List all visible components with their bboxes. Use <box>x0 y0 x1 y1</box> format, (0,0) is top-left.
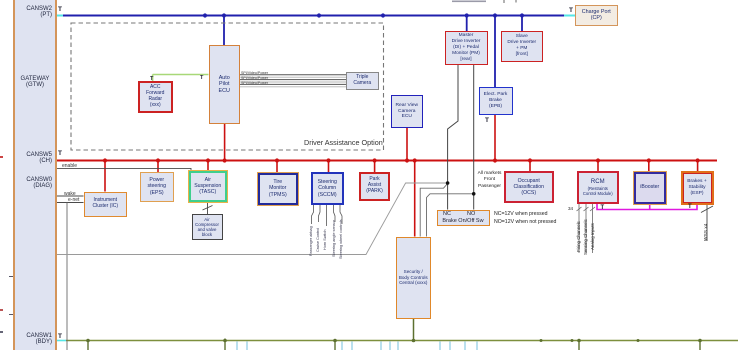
net label GATEWAY (GTW) <box>13 76 57 88</box>
wire green radar link <box>153 75 209 82</box>
wire CH riser to Auto Pilot ECU bottom <box>224 124 226 161</box>
label SCCM switch wires rotated <box>309 226 313 256</box>
left edge cutoff marks <box>0 156 3 333</box>
ECU Security Body Controls Central <box>396 237 432 319</box>
ECU Park Assist <box>359 172 390 201</box>
ECU Slave Drive Inverter <box>501 31 544 62</box>
wire PT bus drop to Slave Drive Inverter <box>521 16 523 32</box>
ECU Air Suspension TASC <box>189 171 227 203</box>
wire CH drop to Occupant Classification <box>529 161 531 172</box>
ECU Power steering <box>140 172 174 202</box>
ECU Auto Pilot <box>209 45 241 124</box>
wire CH drop to RCM <box>597 161 599 172</box>
top edge cutoff text fragment <box>452 0 516 3</box>
ECU ACC Forward Radar <box>138 81 173 113</box>
camera pipe 3 SPI/Video/Power <box>240 84 346 86</box>
wire wake line <box>57 195 84 197</box>
wire NC branch to Security box <box>420 184 447 237</box>
switch terminal label NO <box>467 211 475 217</box>
camera pipe 1 SPI/Video/Power <box>240 75 346 77</box>
wire CH drop to Brakes Stability ESP <box>697 161 699 172</box>
bus CANSW1 (BDY) olive body CAN <box>55 340 738 342</box>
label Firing Channels rotated <box>576 221 581 252</box>
ECU Steering Column SCCM <box>311 172 345 205</box>
wire label enable <box>62 163 77 169</box>
terminator T at BDY bus <box>58 333 62 340</box>
wire RCM harness wires <box>577 204 596 254</box>
wire SCCM switch wires <box>312 205 343 226</box>
camera pipe labels <box>241 71 268 85</box>
ECU Master Drive Inverter <box>445 31 488 65</box>
wire PT bus drop to Elect Park Brake <box>494 16 496 88</box>
wire e-net vertical run to bottom <box>66 203 68 350</box>
wire CH drop to Tire Monitor <box>276 161 278 173</box>
wire e-net line <box>57 202 84 204</box>
module Charge Port <box>575 5 619 26</box>
terminator T at CH bus <box>58 150 62 157</box>
label WSS x4 rotated <box>704 224 709 241</box>
terminator T at PT bus <box>58 6 62 13</box>
wire CH drop to Park Assist <box>374 161 376 173</box>
ECU Tire Monitor TPMS <box>258 173 298 205</box>
wire CH drop to Instrument Cluster <box>104 161 106 192</box>
net label CANSW0 (DIAG) <box>15 177 52 189</box>
terminator T on radar link right <box>200 75 203 81</box>
wire Master DI pedal signal left (NC) <box>448 65 458 210</box>
ECU Brakes Stability ESP <box>681 171 714 205</box>
ECU RCM Restraints Control Module <box>577 171 619 204</box>
label NC NO explanation <box>494 211 556 226</box>
ECU Elect Park Brake <box>479 87 513 115</box>
wire label wake <box>64 191 76 197</box>
wire PT bus drop to Auto Pilot ECU <box>223 16 225 46</box>
node NC junction <box>446 181 450 185</box>
wire PT bus drop to Master Drive Inverter <box>466 16 468 32</box>
bus private brake CAN magenta <box>597 203 697 210</box>
camera pipe 2 SPI/Video/Power <box>240 80 346 82</box>
camera module Triple Camera <box>346 72 379 90</box>
wire CH drop to Steering Column <box>328 161 330 173</box>
wire BDY stubs below bus <box>88 339 700 350</box>
net label CANSW1 (BDY) <box>15 333 52 345</box>
wire CH riser to Elect Park Brake <box>494 115 496 161</box>
ECU iBooster <box>634 172 667 204</box>
dashed frame Driver Assistance Option <box>71 23 384 150</box>
terminator T at charge port <box>569 7 573 14</box>
wire CH drop to Security Body Controls <box>414 161 416 237</box>
wire label e-net <box>68 197 79 203</box>
wire Master DI pedal signal right (NO) <box>473 65 475 210</box>
bus CANSW2 (PT) blue powertrain CAN <box>55 15 575 17</box>
wire TASC to air compressor with break <box>203 202 213 214</box>
wire CH drop to Air Suspension <box>207 161 209 172</box>
wire CH drop to Power steering <box>157 161 159 173</box>
label All markets Front Passenger <box>476 171 503 190</box>
bus CANSW5 (CH) red chassis CAN <box>57 160 717 162</box>
junction dots on PT bus <box>203 13 524 17</box>
ECU Rear View Camera <box>391 95 424 128</box>
wire NO branch to Security box <box>427 194 474 237</box>
label Driver Assistance Option <box>304 138 383 147</box>
terminator T below EPB <box>485 117 489 124</box>
junction dots on BDY bus <box>86 339 702 343</box>
label 34 wire count <box>568 206 573 211</box>
gateway module GTW <box>13 0 57 350</box>
wire CH drop to iBooster <box>648 161 650 172</box>
terminator T on brake CAN left <box>601 205 605 211</box>
switch terminal label NC <box>443 211 451 217</box>
wire pale-blue body stubs <box>237 342 477 350</box>
label Analog Inputs rotated <box>590 223 595 250</box>
wire Security box drop to BDY bus <box>413 319 415 341</box>
label Sensing Channels rotated <box>583 219 588 255</box>
gateway left border stubs <box>9 277 15 315</box>
net label CANSW5 (CH) <box>15 152 52 164</box>
wire WSS sensor line with break <box>701 205 713 242</box>
net label CANSW2 (PT) <box>15 6 52 18</box>
wire enable line <box>57 168 191 171</box>
module Air Compressor <box>192 214 223 240</box>
ECU Occupant Classification <box>504 171 555 203</box>
wire gray signal run gateway to brake switch NC <box>57 183 448 255</box>
terminator T on radar link left <box>150 76 153 82</box>
switch NC NO Brake On/Off <box>437 210 490 226</box>
terminator T on brake CAN right <box>688 204 692 210</box>
node NO junction <box>472 192 476 196</box>
ECU Instrument Cluster <box>84 192 128 217</box>
junction dots on CH bus <box>103 158 700 162</box>
wire CH riser to Rear View Camera ECU <box>406 128 408 161</box>
